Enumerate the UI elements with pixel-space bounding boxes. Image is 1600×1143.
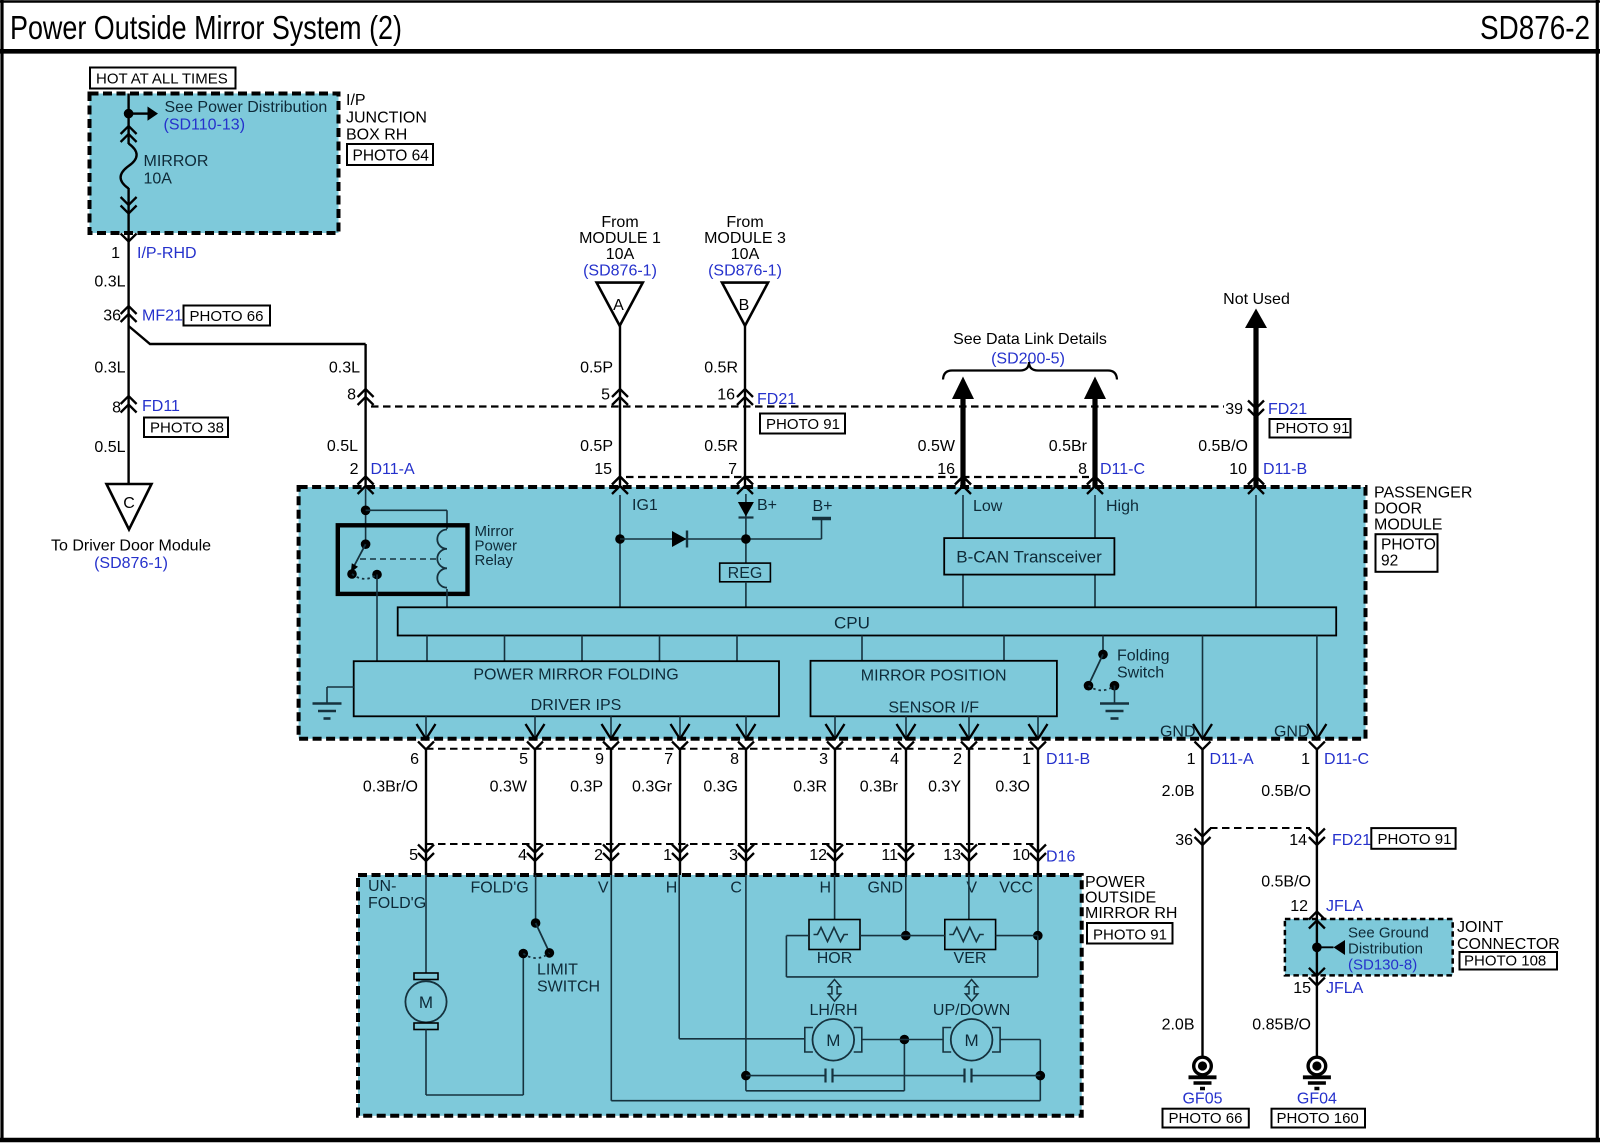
svg-text:PASSENGER: PASSENGER (1374, 485, 1472, 502)
svg-text:A: A (613, 297, 624, 314)
svg-text:Distribution: Distribution (1348, 941, 1423, 958)
svg-text:PHOTO: PHOTO (1381, 537, 1436, 554)
svg-text:5: 5 (519, 751, 528, 768)
svg-text:0.5R: 0.5R (704, 360, 738, 377)
svg-text:See Data Link Details: See Data Link Details (953, 331, 1107, 348)
svg-text:SENSOR I/F: SENSOR I/F (888, 700, 979, 717)
svg-text:Folding: Folding (1117, 648, 1169, 665)
svg-text:SWITCH: SWITCH (537, 979, 600, 996)
svg-text:3: 3 (819, 751, 828, 768)
svg-text:D11-C: D11-C (1324, 751, 1369, 768)
svg-text:1: 1 (1187, 751, 1196, 768)
svg-text:0.5R: 0.5R (704, 438, 738, 455)
svg-text:8: 8 (347, 387, 356, 404)
svg-text:DOOR: DOOR (1374, 501, 1422, 518)
svg-text:11: 11 (881, 847, 898, 864)
svg-text:M: M (826, 1031, 840, 1050)
svg-text:7: 7 (664, 751, 673, 768)
svg-text:LIMIT: LIMIT (537, 962, 578, 979)
svg-text:MIRROR POSITION: MIRROR POSITION (861, 668, 1007, 685)
svg-text:UP/DOWN: UP/DOWN (933, 1002, 1010, 1019)
svg-text:10: 10 (1229, 461, 1247, 478)
svg-text:1: 1 (663, 847, 672, 864)
svg-text:PHOTO 160: PHOTO 160 (1277, 1110, 1359, 1127)
svg-text:PHOTO 91: PHOTO 91 (1378, 831, 1452, 848)
svg-text:FD11: FD11 (142, 398, 180, 415)
svg-text:B-CAN Transceiver: B-CAN Transceiver (956, 548, 1102, 567)
svg-text:POWER MIRROR FOLDING: POWER MIRROR FOLDING (473, 667, 678, 684)
svg-text:JOINT: JOINT (1457, 919, 1503, 936)
svg-text:FD21: FD21 (1332, 832, 1371, 849)
svg-text:5: 5 (409, 847, 418, 864)
svg-text:0.3P: 0.3P (570, 779, 603, 796)
svg-text:JUNCTION: JUNCTION (346, 110, 427, 127)
svg-text:4: 4 (890, 751, 899, 768)
svg-text:M: M (419, 993, 433, 1012)
svg-text:(SD876-1): (SD876-1) (583, 263, 657, 280)
svg-text:0.5L: 0.5L (327, 438, 358, 455)
svg-text:BOX RH: BOX RH (346, 127, 407, 144)
svg-text:Low: Low (973, 498, 1003, 515)
svg-text:PHOTO 66: PHOTO 66 (1169, 1110, 1243, 1127)
svg-text:PHOTO 64: PHOTO 64 (353, 148, 430, 165)
svg-text:UN-: UN- (368, 878, 396, 895)
svg-text:C: C (123, 495, 135, 512)
svg-text:I/P-RHD: I/P-RHD (137, 245, 197, 262)
svg-text:B: B (739, 297, 750, 314)
svg-text:MIRROR RH: MIRROR RH (1085, 905, 1177, 922)
svg-text:10A: 10A (144, 171, 173, 188)
svg-text:0.3L: 0.3L (94, 360, 125, 377)
svg-text:High: High (1106, 498, 1139, 515)
svg-text:0.3R: 0.3R (793, 779, 827, 796)
svg-text:13: 13 (943, 847, 961, 864)
svg-text:2: 2 (350, 461, 359, 478)
svg-text:15: 15 (594, 461, 612, 478)
svg-text:D11-A: D11-A (371, 461, 415, 478)
svg-text:1: 1 (111, 245, 120, 262)
svg-text:DRIVER IPS: DRIVER IPS (531, 697, 622, 714)
svg-text:10A: 10A (731, 246, 760, 263)
svg-text:V: V (598, 880, 609, 897)
svg-text:D11-B: D11-B (1263, 461, 1307, 478)
svg-text:Power Outside Mirror System (2: Power Outside Mirror System (2) (10, 9, 402, 46)
svg-text:From: From (601, 214, 638, 231)
svg-text:1: 1 (1022, 751, 1031, 768)
svg-text:0.3Br/O: 0.3Br/O (363, 779, 418, 796)
svg-text:See Ground: See Ground (1348, 925, 1429, 942)
svg-text:IG1: IG1 (632, 497, 658, 514)
svg-text:2.0B: 2.0B (1162, 1017, 1195, 1034)
svg-text:D11-A: D11-A (1210, 751, 1254, 768)
svg-text:HOR: HOR (817, 950, 853, 967)
svg-text:GND: GND (1274, 724, 1310, 741)
svg-text:92: 92 (1381, 553, 1398, 570)
svg-text:GND: GND (867, 880, 903, 897)
svg-text:PHOTO 66: PHOTO 66 (190, 308, 264, 325)
svg-text:(SD876-1): (SD876-1) (94, 555, 168, 572)
svg-text:14: 14 (1289, 832, 1307, 849)
svg-text:B+: B+ (813, 498, 833, 515)
svg-text:V: V (966, 880, 977, 897)
svg-text:H: H (819, 880, 831, 897)
svg-text:36: 36 (1175, 832, 1193, 849)
svg-text:4: 4 (518, 847, 527, 864)
svg-text:(SD110-13): (SD110-13) (164, 117, 246, 134)
svg-text:0.5W: 0.5W (918, 438, 956, 455)
svg-text:7: 7 (728, 461, 737, 478)
svg-text:2: 2 (953, 751, 962, 768)
svg-text:JFLA: JFLA (1326, 898, 1364, 915)
svg-text:9: 9 (595, 751, 604, 768)
svg-text:CPU: CPU (834, 614, 870, 633)
svg-text:3: 3 (729, 847, 738, 864)
svg-text:MODULE 1: MODULE 1 (579, 230, 661, 247)
svg-text:GF04: GF04 (1297, 1091, 1337, 1108)
svg-text:FD21: FD21 (1268, 401, 1307, 418)
svg-text:VCC: VCC (999, 880, 1033, 897)
svg-text:FD21: FD21 (757, 391, 796, 408)
svg-text:Relay: Relay (475, 552, 514, 569)
svg-text:0.3Br: 0.3Br (860, 779, 899, 796)
svg-text:FOLD'G: FOLD'G (368, 895, 426, 912)
svg-text:MODULE 3: MODULE 3 (704, 230, 786, 247)
svg-text:Not Used: Not Used (1223, 291, 1290, 308)
svg-text:D16: D16 (1046, 849, 1075, 866)
svg-text:Switch: Switch (1117, 665, 1164, 682)
svg-text:VER: VER (954, 950, 987, 967)
svg-text:(SD876-1): (SD876-1) (708, 263, 782, 280)
svg-text:SD876-2: SD876-2 (1480, 9, 1590, 46)
svg-text:0.5B/O: 0.5B/O (1261, 874, 1311, 891)
svg-text:CONNECTOR: CONNECTOR (1457, 936, 1560, 953)
svg-text:36: 36 (103, 308, 121, 325)
svg-text:MF21: MF21 (142, 308, 183, 325)
svg-text:0.3Y: 0.3Y (928, 779, 961, 796)
svg-text:1: 1 (1301, 751, 1310, 768)
svg-text:16: 16 (717, 387, 735, 404)
svg-text:From: From (726, 214, 763, 231)
svg-text:PHOTO 91: PHOTO 91 (1276, 420, 1350, 437)
svg-text:MODULE: MODULE (1374, 517, 1442, 534)
svg-text:OUTSIDE: OUTSIDE (1085, 890, 1156, 907)
svg-text:(SD130-8): (SD130-8) (1348, 957, 1417, 974)
svg-text:0.3W: 0.3W (490, 779, 528, 796)
svg-text:See Power Distribution: See Power Distribution (165, 99, 328, 116)
svg-text:0.3Gr: 0.3Gr (632, 779, 673, 796)
svg-text:To Driver Door Module: To Driver Door Module (51, 538, 211, 555)
svg-text:D11-C: D11-C (1100, 461, 1145, 478)
svg-text:MIRROR: MIRROR (144, 153, 209, 170)
svg-text:M: M (965, 1031, 979, 1050)
svg-text:PHOTO 108: PHOTO 108 (1464, 953, 1546, 970)
svg-text:GND: GND (1160, 724, 1196, 741)
svg-text:39: 39 (1225, 401, 1243, 418)
svg-text:D11-B: D11-B (1046, 751, 1090, 768)
svg-text:15: 15 (1293, 980, 1311, 997)
svg-text:0.85B/O: 0.85B/O (1252, 1017, 1311, 1034)
svg-text:0.5L: 0.5L (94, 439, 125, 456)
svg-text:I/P: I/P (346, 92, 366, 109)
svg-text:8: 8 (730, 751, 739, 768)
svg-text:8: 8 (112, 400, 121, 417)
svg-text:C: C (730, 880, 742, 897)
svg-text:0.5Br: 0.5Br (1049, 438, 1088, 455)
svg-text:B+: B+ (757, 497, 777, 514)
svg-text:0.5B/O: 0.5B/O (1261, 783, 1311, 800)
svg-text:12: 12 (809, 847, 827, 864)
svg-text:2.0B: 2.0B (1162, 783, 1195, 800)
svg-text:HOT AT ALL TIMES: HOT AT ALL TIMES (96, 71, 228, 88)
svg-text:FOLD'G: FOLD'G (471, 880, 529, 897)
svg-text:REG: REG (728, 565, 763, 582)
svg-text:10A: 10A (606, 246, 635, 263)
svg-text:LH/RH: LH/RH (809, 1002, 857, 1019)
svg-text:PHOTO 91: PHOTO 91 (1093, 927, 1167, 944)
svg-text:H: H (666, 880, 678, 897)
svg-text:6: 6 (410, 751, 419, 768)
svg-text:0.3G: 0.3G (703, 779, 738, 796)
svg-text:PHOTO 91: PHOTO 91 (766, 416, 840, 433)
svg-text:0.5P: 0.5P (580, 360, 613, 377)
svg-text:PHOTO 38: PHOTO 38 (150, 420, 224, 437)
svg-text:GF05: GF05 (1182, 1091, 1222, 1108)
svg-text:POWER: POWER (1085, 874, 1145, 891)
svg-text:0.5P: 0.5P (580, 438, 613, 455)
svg-text:12: 12 (1290, 898, 1308, 915)
svg-text:JFLA: JFLA (1326, 980, 1364, 997)
svg-text:5: 5 (601, 387, 610, 404)
svg-text:0.3O: 0.3O (995, 779, 1030, 796)
svg-text:10: 10 (1012, 847, 1030, 864)
svg-text:2: 2 (594, 847, 603, 864)
svg-text:0.3L: 0.3L (94, 274, 125, 291)
svg-text:0.3L: 0.3L (329, 360, 360, 377)
svg-text:8: 8 (1078, 461, 1087, 478)
svg-text:16: 16 (937, 461, 955, 478)
svg-text:0.5B/O: 0.5B/O (1198, 438, 1248, 455)
